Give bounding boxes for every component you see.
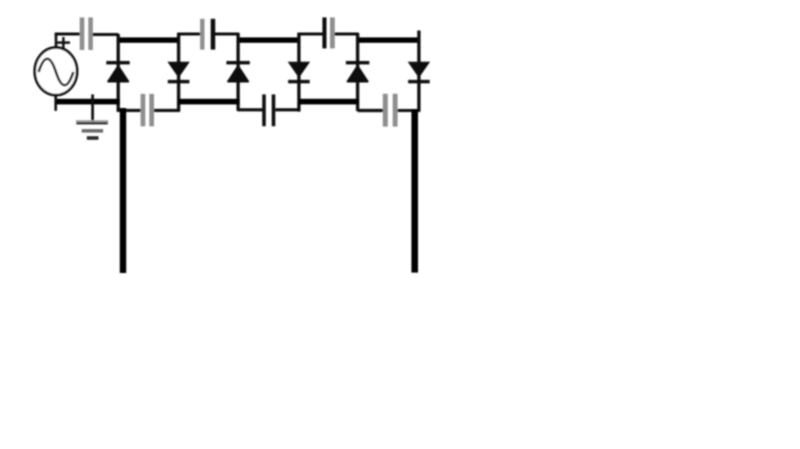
diode D6 <box>408 31 430 112</box>
wire thick bottom rail D2-D3 <box>179 99 240 105</box>
wire thick output drop right <box>411 110 418 273</box>
wire C3 to D3 <box>215 32 239 35</box>
capacitor C6 <box>383 94 398 127</box>
wire D1 to C2 <box>117 109 141 112</box>
wire C1 to D1 <box>93 33 119 36</box>
wire thick top rail D3-D4 <box>238 37 300 42</box>
capacitor C3 <box>200 19 215 50</box>
capacitor C4 <box>262 94 275 126</box>
wire thick top rail D5-D6 <box>359 37 421 42</box>
wire thick top rail D1-D2 <box>117 37 179 42</box>
capacitor C1 <box>80 17 93 50</box>
wire D5 to C6 <box>358 109 383 112</box>
wire C6 to D6 <box>398 109 421 112</box>
wire thick bottom rail source-D1 <box>55 99 120 105</box>
wire D3 to C4 <box>238 108 263 111</box>
wire C2 to D2 <box>154 109 180 112</box>
capacitor C5 <box>322 17 334 48</box>
diode D4 <box>288 33 310 112</box>
ground <box>76 94 108 139</box>
ac source V1 <box>35 48 77 96</box>
capacitor C2 <box>141 94 154 126</box>
plus polarity label <box>57 37 70 48</box>
diode D2 <box>167 33 189 112</box>
diode D1 <box>106 34 129 112</box>
wire D4 to C5 <box>298 32 324 35</box>
diode D5 <box>346 33 369 111</box>
wire top source to C1 <box>55 32 81 35</box>
wire source top vertical <box>55 34 58 49</box>
wire C5 to D5 <box>335 32 359 35</box>
wire thick bottom rail D4-D5 <box>299 99 358 105</box>
wire bottom rail left end tick <box>54 95 57 111</box>
wire D2 to C3 <box>178 32 201 35</box>
diode D3 <box>226 33 249 111</box>
wire thick output drop left <box>120 108 126 273</box>
wire C4 to D4 <box>275 108 300 111</box>
